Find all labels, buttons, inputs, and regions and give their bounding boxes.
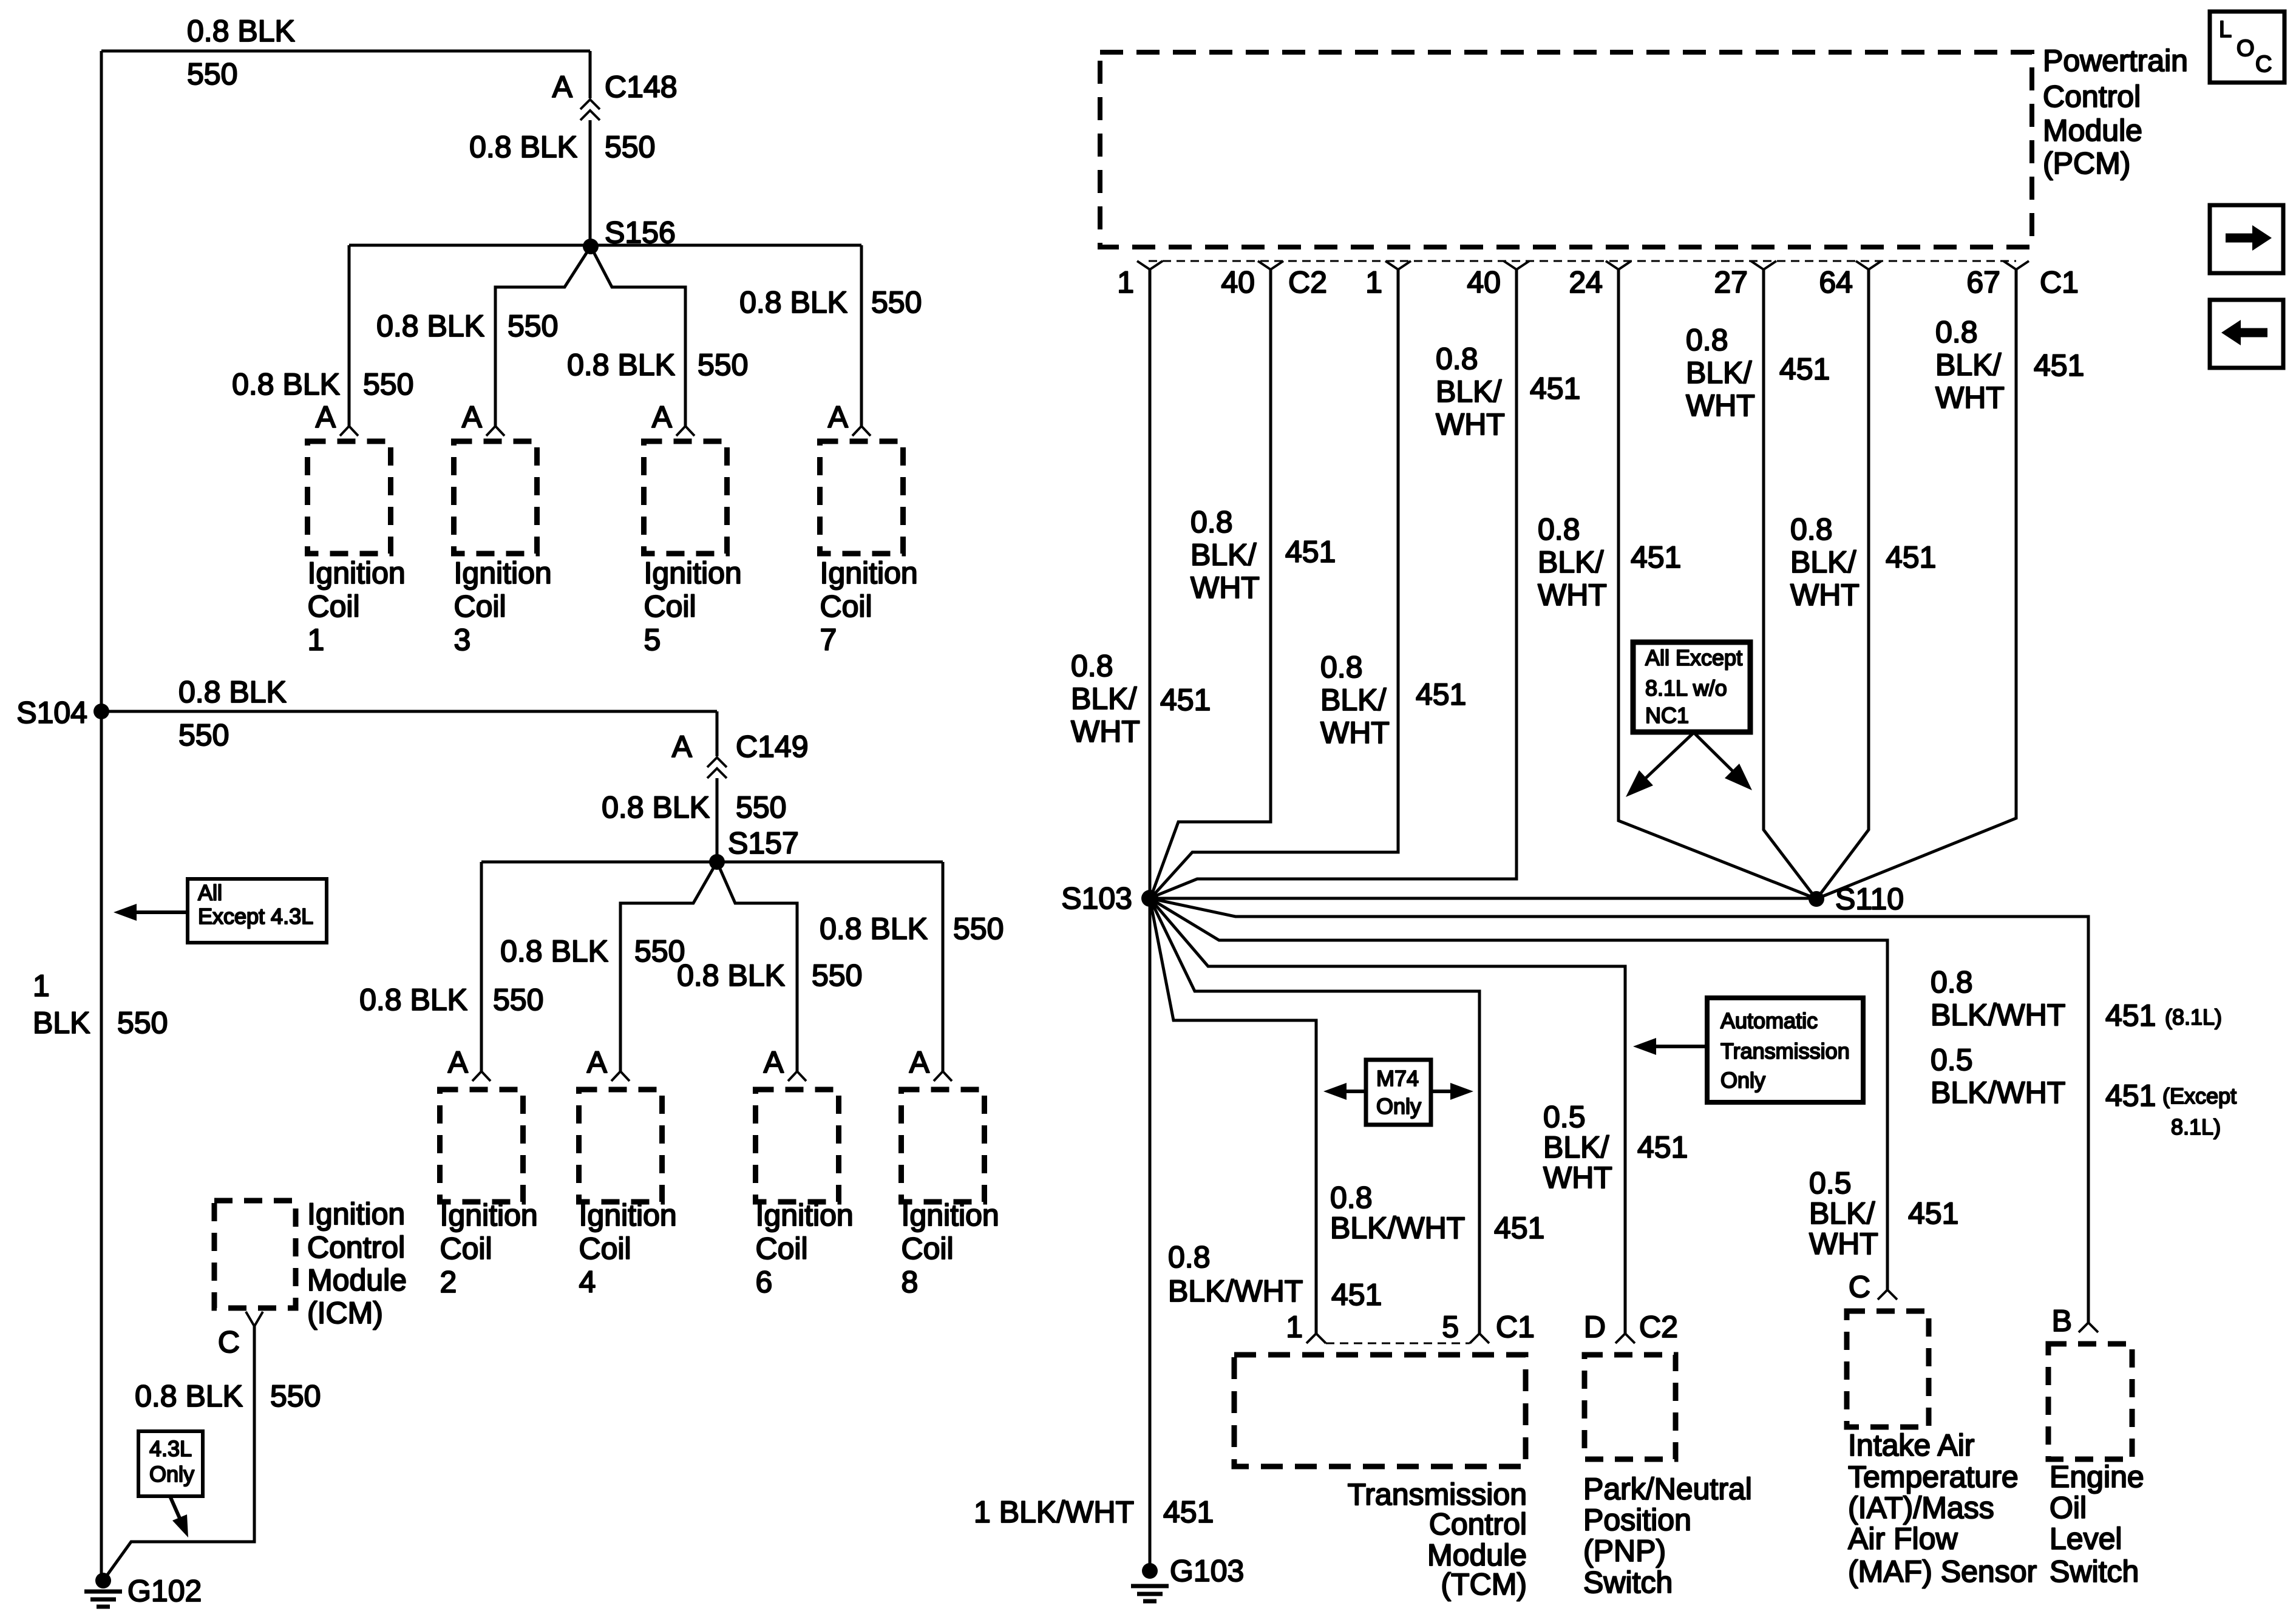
svg-text:0.8: 0.8 bbox=[1071, 649, 1113, 683]
svg-text:67: 67 bbox=[1966, 265, 2000, 299]
svg-text:S110: S110 bbox=[1835, 882, 1904, 916]
svg-text:451: 451 bbox=[1631, 540, 1681, 574]
svg-text:Ignition: Ignition bbox=[579, 1198, 677, 1232]
PCM pin 40 connector chevron at x=2093 bbox=[1221, 261, 1283, 299]
svg-text:Position: Position bbox=[1583, 1503, 1691, 1537]
wire label 0.8 BLK/WHT 451 (TCM pin 5) bbox=[1330, 1181, 1544, 1245]
svg-text:550: 550 bbox=[187, 57, 237, 91]
svg-text:Ignition: Ignition bbox=[902, 1198, 999, 1232]
PCM pin 1 connector chevron at x=2303 bbox=[1365, 261, 1411, 299]
ICM connector chevron pin C bbox=[218, 1312, 263, 1359]
ground G102 bbox=[84, 1573, 202, 1608]
svg-text:0.8 BLK: 0.8 BLK bbox=[187, 14, 295, 48]
wire label 0.8 BLK (coil 3) bbox=[376, 309, 484, 343]
wire - S157 horizontal bus bbox=[481, 861, 943, 864]
svg-text:550: 550 bbox=[493, 983, 543, 1017]
wire label 0.8 BLK/WHT 451 (pin 1 C1) bbox=[1320, 650, 1466, 750]
svg-text:Powertrain: Powertrain bbox=[2043, 44, 2188, 78]
wire - S103 to PNP switch bbox=[1150, 898, 1625, 1334]
wire label 1 BLK/WHT 451 (G103 run) bbox=[974, 1495, 1214, 1529]
splice S157 bbox=[709, 826, 799, 870]
ignition coil 4 box bbox=[579, 1090, 662, 1202]
wire - PCM pin 1 C1 to S103 bbox=[1152, 269, 1398, 897]
wire - S103 to S110 link bbox=[1150, 897, 1816, 900]
svg-text:0.8: 0.8 bbox=[1935, 315, 1978, 349]
wire - PCM pin 24 to S110 bbox=[1618, 269, 1815, 898]
IAT/MAF label bbox=[1848, 1428, 2037, 1588]
svg-text:550: 550 bbox=[871, 285, 922, 319]
svg-text:0.8 BLK: 0.8 BLK bbox=[500, 934, 608, 968]
ignition coil 5 box bbox=[644, 441, 727, 554]
wire - S156 branch to coil 5 bbox=[591, 246, 685, 426]
svg-text:S103: S103 bbox=[1061, 881, 1132, 915]
PCM label bbox=[2043, 44, 2188, 180]
wire - PCM pin 64 to S110 bbox=[1817, 269, 1869, 898]
wire label 550 (coil 4) bbox=[634, 934, 685, 968]
splice S103 bbox=[1061, 881, 1158, 915]
wire - PCM pin 27 to S110 bbox=[1764, 269, 1816, 898]
svg-text:O: O bbox=[2237, 36, 2255, 61]
svg-text:C149: C149 bbox=[736, 730, 809, 764]
wire - PCM pin 40 C2 to S103 bbox=[1151, 269, 1271, 897]
wire - S103 to TCM pin 5 bbox=[1150, 898, 1479, 1334]
svg-text:0.8: 0.8 bbox=[1931, 965, 1973, 999]
wire - S104 to C149 bbox=[101, 711, 717, 756]
connector C149 symbol bbox=[707, 730, 809, 778]
svg-text:BLK/: BLK/ bbox=[1190, 538, 1257, 572]
svg-text:(ICM): (ICM) bbox=[307, 1296, 383, 1330]
ignition coil 4 label bbox=[579, 1198, 677, 1299]
svg-text:550: 550 bbox=[605, 130, 655, 164]
ignition coil 1 label bbox=[308, 556, 406, 657]
wire - S103 to engine oil level switch bbox=[1150, 898, 2088, 1323]
svg-text:0.8: 0.8 bbox=[1330, 1181, 1373, 1215]
svg-text:S104: S104 bbox=[16, 696, 87, 730]
svg-text:550: 550 bbox=[270, 1379, 321, 1413]
svg-text:550: 550 bbox=[953, 912, 1004, 946]
wire - S156 branch to coil 3 bbox=[495, 246, 591, 426]
callout box Automatic Transmission Only bbox=[1707, 998, 1863, 1102]
svg-text:Only: Only bbox=[1720, 1068, 1765, 1093]
wire label 0.8 BLK/WHT 451 (pin 67) bbox=[1935, 315, 2084, 415]
svg-text:0.8 BLK: 0.8 BLK bbox=[359, 983, 467, 1017]
svg-text:S157: S157 bbox=[728, 826, 799, 860]
wire label 0.8 BLK (coil 4) bbox=[500, 934, 608, 968]
arrow - NC1 callout to pin 24 wire bbox=[1626, 733, 1694, 797]
svg-text:A: A bbox=[316, 400, 336, 434]
splice S104 bbox=[16, 696, 109, 730]
wire label 0.8 BLK/WHT 451 (pin 24) bbox=[1538, 512, 1681, 612]
svg-text:1: 1 bbox=[1365, 265, 1382, 299]
IAT pin C label bbox=[1849, 1270, 1870, 1304]
ignition coil 3 box bbox=[454, 441, 537, 554]
wire - S156 to ignition coil 7 bbox=[860, 245, 863, 426]
svg-text:BLK/WHT: BLK/WHT bbox=[1931, 1076, 2065, 1110]
svg-text:451: 451 bbox=[2034, 348, 2084, 382]
svg-text:0.8: 0.8 bbox=[1436, 342, 1478, 376]
engine oil pin B chevron bbox=[2079, 1323, 2098, 1332]
PCM pin 67 connector chevron at x=3321 bbox=[1966, 261, 2029, 299]
svg-text:BLK/WHT: BLK/WHT bbox=[1168, 1274, 1303, 1308]
svg-text:WHT: WHT bbox=[1935, 381, 2005, 415]
pin A of ignition coil 8 bbox=[909, 1045, 930, 1079]
svg-text:C: C bbox=[1849, 1270, 1870, 1304]
wire label 0.8 BLK (coil 2) bbox=[359, 983, 467, 1017]
ignition coil 1 box bbox=[308, 441, 391, 554]
PNP label bbox=[1583, 1472, 1752, 1599]
svg-text:8: 8 bbox=[902, 1265, 919, 1299]
svg-text:BLK/: BLK/ bbox=[1436, 375, 1502, 408]
svg-text:550: 550 bbox=[117, 1006, 168, 1040]
connector chevron coil 3 bbox=[486, 426, 504, 436]
ignition coil 3 label bbox=[454, 556, 552, 657]
svg-text:0.8: 0.8 bbox=[1320, 650, 1363, 684]
svg-text:Air Flow: Air Flow bbox=[1848, 1522, 1958, 1556]
engine oil level switch label bbox=[2050, 1460, 2144, 1588]
svg-text:Control: Control bbox=[1429, 1507, 1527, 1541]
svg-text:C2: C2 bbox=[1288, 265, 1327, 299]
wire label 0.8 BLK (coil 8) bbox=[820, 912, 928, 946]
pin A of ignition coil 4 bbox=[587, 1045, 608, 1079]
svg-text:451: 451 bbox=[1331, 1278, 1382, 1312]
svg-text:7: 7 bbox=[820, 623, 837, 657]
wire - S157 to ignition coil 8 bbox=[942, 862, 945, 1071]
svg-text:5: 5 bbox=[1442, 1310, 1459, 1344]
svg-text:40: 40 bbox=[1221, 265, 1255, 299]
PCM pin 40 connector chevron at x=2498 bbox=[1467, 261, 1529, 299]
PCM pin 1 connector chevron at x=1894 bbox=[1117, 261, 1163, 299]
wire label 550 (coil 7) bbox=[871, 285, 922, 319]
wire label 0.8 BLK 550 (C148-S156) bbox=[469, 130, 655, 164]
svg-text:1: 1 bbox=[1117, 265, 1134, 299]
wire label 550 (coil 5) bbox=[698, 348, 748, 382]
svg-text:L: L bbox=[2219, 17, 2232, 42]
svg-text:Coil: Coil bbox=[644, 589, 696, 623]
engine oil level switch box bbox=[2048, 1344, 2132, 1459]
arrow - Automatic Transmission Only to PNP wire bbox=[1633, 1038, 1707, 1055]
wire - PCM pin 67 to S110 bbox=[1818, 269, 2016, 898]
park/neutral position switch box bbox=[1584, 1355, 1676, 1459]
svg-text:(TCM): (TCM) bbox=[1441, 1567, 1527, 1601]
svg-text:Coil: Coil bbox=[579, 1232, 631, 1266]
wire label 550 (coil 3) bbox=[508, 309, 558, 343]
svg-text:6: 6 bbox=[756, 1265, 773, 1299]
svg-text:C148: C148 bbox=[605, 70, 678, 104]
svg-text:(8.1L): (8.1L) bbox=[2165, 1005, 2222, 1029]
svg-text:Ignition: Ignition bbox=[307, 1197, 405, 1231]
wire label 0.8 BLK/WHT 451 8.1L (right) bbox=[1931, 965, 2222, 1032]
callout box 4.3L Only bbox=[138, 1431, 203, 1496]
svg-text:M74: M74 bbox=[1376, 1066, 1419, 1091]
svg-text:0.5: 0.5 bbox=[1931, 1043, 1973, 1077]
PNP pin D chevron bbox=[1615, 1334, 1635, 1343]
TCM pin 5 label bbox=[1442, 1310, 1459, 1344]
connector chevron coil 5 bbox=[676, 426, 695, 436]
svg-text:451: 451 bbox=[1779, 352, 1830, 386]
wire - S103 to IAT/MAF sensor bbox=[1150, 898, 1887, 1290]
svg-text:550: 550 bbox=[812, 958, 862, 992]
svg-text:0.8 BLK: 0.8 BLK bbox=[376, 309, 484, 343]
svg-text:Oil: Oil bbox=[2050, 1491, 2087, 1525]
svg-text:451: 451 bbox=[1163, 1495, 1214, 1529]
svg-text:5: 5 bbox=[644, 623, 661, 657]
connector C148 symbol bbox=[580, 51, 678, 120]
svg-text:3: 3 bbox=[454, 623, 471, 657]
arrow - All Except 4.3L to main wire bbox=[114, 904, 188, 921]
wire label 550 (coil 1) bbox=[363, 367, 413, 401]
svg-text:Ignition: Ignition bbox=[644, 556, 742, 590]
svg-text:451: 451 bbox=[1908, 1196, 1958, 1230]
svg-text:0.8: 0.8 bbox=[1686, 323, 1728, 357]
connector C148 pin A bbox=[552, 70, 573, 104]
legend LOC box bbox=[2210, 12, 2284, 83]
svg-text:A: A bbox=[462, 400, 483, 434]
wire label 0.5 BLK/WHT 451 (IAT) bbox=[1809, 1166, 1958, 1261]
svg-text:Except 4.3L: Except 4.3L bbox=[198, 904, 313, 929]
svg-text:4: 4 bbox=[579, 1265, 596, 1299]
svg-text:0.8 BLK: 0.8 BLK bbox=[567, 348, 675, 382]
ground G103 bbox=[1131, 1554, 1244, 1601]
wire label 550 (coil 8) bbox=[953, 912, 1004, 946]
svg-text:0.8 BLK: 0.8 BLK bbox=[602, 790, 710, 824]
engine oil pin B label bbox=[2052, 1304, 2072, 1338]
wire - main ground run from top-left to G102 bbox=[100, 51, 103, 1581]
svg-text:0.8 BLK: 0.8 BLK bbox=[677, 958, 785, 992]
svg-text:64: 64 bbox=[1819, 265, 1853, 299]
svg-text:A: A bbox=[909, 1045, 930, 1079]
pin A of ignition coil 3 bbox=[462, 400, 483, 434]
svg-text:24: 24 bbox=[1569, 265, 1603, 299]
TCM connector face dashed line bbox=[1326, 1343, 1470, 1344]
svg-text:WHT: WHT bbox=[1543, 1161, 1612, 1195]
svg-text:BLK/: BLK/ bbox=[1935, 348, 2002, 382]
TCM pin 1 chevron bbox=[1306, 1334, 1326, 1343]
connector chevron coil 4 bbox=[611, 1071, 630, 1081]
PCM pin 24 connector chevron at x=2666 bbox=[1569, 261, 1631, 299]
svg-text:Switch: Switch bbox=[1583, 1565, 1673, 1599]
svg-text:A: A bbox=[828, 400, 849, 434]
wire label 550 (coil 2) bbox=[493, 983, 543, 1017]
svg-text:G102: G102 bbox=[127, 1574, 202, 1608]
ignition control module ICM box bbox=[214, 1201, 296, 1308]
wire - S156 to ignition coil 1 bbox=[348, 245, 351, 426]
svg-text:WHT: WHT bbox=[1320, 716, 1390, 750]
wire label 0.8 BLK (coil 1) bbox=[232, 367, 340, 401]
svg-text:Level: Level bbox=[2050, 1522, 2122, 1556]
svg-text:BLK/: BLK/ bbox=[1790, 545, 1856, 579]
connector chevron coil 8 bbox=[934, 1071, 952, 1081]
svg-text:WHT: WHT bbox=[1790, 578, 1860, 612]
pin A of ignition coil 7 bbox=[828, 400, 849, 434]
svg-text:Control: Control bbox=[307, 1230, 405, 1264]
svg-text:WHT: WHT bbox=[1686, 388, 1755, 422]
wire - PCM pin 1 C2 down to S103 and G103 bbox=[1149, 269, 1152, 1571]
svg-text:A: A bbox=[552, 70, 573, 104]
svg-text:4.3L: 4.3L bbox=[149, 1436, 192, 1461]
svg-text:WHT: WHT bbox=[1071, 714, 1140, 748]
svg-text:451: 451 bbox=[1530, 371, 1580, 405]
svg-text:C: C bbox=[2255, 52, 2272, 77]
wire label 0.8 BLK 550 (top left) bbox=[187, 14, 295, 91]
wire label 0.8 BLK/WHT 451 (pin 40 C2) bbox=[1190, 505, 1336, 605]
svg-text:Temperature: Temperature bbox=[1848, 1460, 2019, 1494]
svg-text:1: 1 bbox=[308, 623, 325, 657]
wire label 1 BLK 550 (main run) bbox=[33, 969, 168, 1040]
TCM pin 5 chevron bbox=[1470, 1334, 1489, 1343]
wire label 0.8 BLK 550 (ICM) bbox=[135, 1379, 321, 1413]
transmission control module TCM box bbox=[1234, 1355, 1526, 1466]
wire label 0.8 BLK/WHT 451 (pin 40 C1) bbox=[1436, 342, 1580, 441]
wire label 0.8 BLK (coil 6) bbox=[677, 958, 785, 992]
svg-text:Coil: Coil bbox=[820, 589, 872, 623]
svg-text:451: 451 bbox=[1494, 1211, 1544, 1245]
svg-text:0.5: 0.5 bbox=[1543, 1100, 1586, 1134]
ICM label bbox=[307, 1197, 407, 1330]
splice S156 bbox=[583, 215, 676, 254]
svg-text:1 BLK/WHT: 1 BLK/WHT bbox=[974, 1495, 1134, 1529]
svg-text:Coil: Coil bbox=[902, 1232, 954, 1266]
svg-text:Automatic: Automatic bbox=[1720, 1008, 1818, 1033]
wire - S156 horizontal bus bbox=[349, 244, 861, 247]
svg-text:WHT: WHT bbox=[1538, 578, 1607, 612]
connector chevron coil 6 bbox=[788, 1071, 806, 1081]
ignition coil 8 box bbox=[902, 1090, 985, 1202]
wire - C148 to S156 bbox=[589, 120, 592, 246]
svg-text:0.5: 0.5 bbox=[1809, 1166, 1852, 1200]
svg-text:All: All bbox=[198, 880, 222, 905]
PCM connector C1 label bbox=[2040, 265, 2079, 299]
svg-text:0.8: 0.8 bbox=[1790, 512, 1833, 546]
svg-text:Coil: Coil bbox=[454, 589, 506, 623]
powertrain control module PCM box bbox=[1100, 52, 2032, 247]
arrow - M74 to TCM pin 1 wire bbox=[1323, 1083, 1366, 1100]
svg-text:0.8 BLK: 0.8 BLK bbox=[178, 675, 287, 709]
svg-text:(Except: (Except bbox=[2162, 1083, 2237, 1108]
svg-text:451: 451 bbox=[1637, 1130, 1688, 1164]
wire label 0.5 BLK/WHT 451 (PNP) bbox=[1543, 1100, 1688, 1195]
ignition coil 6 label bbox=[756, 1198, 854, 1299]
svg-text:A: A bbox=[764, 1045, 784, 1079]
arrow - M74 to TCM pin 5 wire bbox=[1431, 1083, 1473, 1100]
svg-text:550: 550 bbox=[508, 309, 558, 343]
svg-text:0.8 BLK: 0.8 BLK bbox=[232, 367, 340, 401]
svg-text:451: 451 bbox=[1416, 677, 1466, 711]
PNP pin D label bbox=[1584, 1310, 1606, 1344]
ignition coil 8 label bbox=[902, 1198, 999, 1299]
arrow - NC1 callout to pin 27 wire bbox=[1694, 733, 1752, 790]
svg-text:Only: Only bbox=[149, 1462, 194, 1486]
svg-text:451: 451 bbox=[1886, 540, 1936, 574]
svg-text:Only: Only bbox=[1376, 1094, 1421, 1119]
callout box M74 Only bbox=[1366, 1060, 1431, 1125]
svg-text:C1: C1 bbox=[1496, 1310, 1535, 1344]
svg-text:G103: G103 bbox=[1170, 1554, 1244, 1588]
pin A of ignition coil 6 bbox=[764, 1045, 784, 1079]
svg-text:A: A bbox=[587, 1045, 608, 1079]
PCM connector face dashed line bbox=[1149, 260, 2016, 262]
wire label 0.8 BLK (coil 7) bbox=[739, 285, 847, 319]
svg-text:(PNP): (PNP) bbox=[1583, 1534, 1666, 1568]
svg-text:Ignition: Ignition bbox=[440, 1198, 538, 1232]
IAT/MAF sensor box bbox=[1847, 1311, 1929, 1427]
callout box All Except 8.1L w/o NC1 bbox=[1633, 642, 1750, 732]
ignition coil 7 label bbox=[820, 556, 918, 657]
svg-text:451: 451 bbox=[1160, 683, 1211, 717]
wire - S157 to ignition coil 2 bbox=[480, 862, 483, 1071]
svg-text:Ignition: Ignition bbox=[820, 556, 918, 590]
svg-text:2: 2 bbox=[440, 1265, 457, 1299]
IAT pin C chevron bbox=[1878, 1290, 1897, 1300]
svg-text:WHT: WHT bbox=[1809, 1227, 1878, 1261]
ignition coil 7 box bbox=[820, 441, 903, 554]
svg-text:550: 550 bbox=[363, 367, 413, 401]
svg-text:NC1: NC1 bbox=[1645, 703, 1689, 728]
PCM pin 27 connector chevron at x=2905 bbox=[1714, 261, 1776, 299]
legend arrow-left box bbox=[2210, 300, 2283, 368]
svg-text:C2: C2 bbox=[1639, 1310, 1678, 1344]
svg-text:0.8: 0.8 bbox=[1190, 505, 1233, 539]
svg-text:27: 27 bbox=[1714, 265, 1748, 299]
wire - C149 to S157 bbox=[716, 778, 719, 862]
svg-text:A: A bbox=[448, 1045, 469, 1079]
svg-text:451: 451 bbox=[2105, 1079, 2156, 1113]
svg-text:Ignition: Ignition bbox=[756, 1198, 854, 1232]
connector chevron coil 2 bbox=[472, 1071, 491, 1081]
svg-text:0.8 BLK: 0.8 BLK bbox=[469, 130, 577, 164]
PCM pin 64 connector chevron at x=3078 bbox=[1819, 261, 1881, 299]
svg-text:550: 550 bbox=[178, 718, 229, 752]
svg-text:0.8: 0.8 bbox=[1538, 512, 1580, 546]
svg-text:Park/Neutral: Park/Neutral bbox=[1583, 1472, 1752, 1506]
wire - S157 branch to coil 6 bbox=[717, 862, 797, 1071]
svg-text:Control: Control bbox=[2043, 80, 2141, 114]
wire label 0.5 BLK/WHT 451 Except 8.1L (right) bbox=[1931, 1043, 2237, 1139]
pin A of ignition coil 5 bbox=[652, 400, 673, 434]
svg-text:B: B bbox=[2052, 1304, 2072, 1338]
svg-text:BLK/: BLK/ bbox=[1686, 356, 1752, 390]
svg-text:C: C bbox=[218, 1325, 240, 1359]
ignition coil 2 label bbox=[440, 1198, 538, 1299]
wire label 0.8 BLK 550 (C149-S157) bbox=[602, 790, 786, 824]
svg-text:Module: Module bbox=[307, 1263, 407, 1297]
splice S110 bbox=[1809, 882, 1904, 916]
svg-text:550: 550 bbox=[698, 348, 748, 382]
wire label 0.8 BLK (coil 5) bbox=[567, 348, 675, 382]
svg-text:451: 451 bbox=[1285, 535, 1336, 569]
svg-text:0.8 BLK: 0.8 BLK bbox=[820, 912, 928, 946]
svg-text:A: A bbox=[652, 400, 673, 434]
wire label 0.8 BLK/WHT 451 (pin 1 C2) bbox=[1071, 649, 1211, 748]
svg-text:BLK/: BLK/ bbox=[1543, 1130, 1609, 1164]
svg-text:C1: C1 bbox=[2040, 265, 2079, 299]
svg-text:Coil: Coil bbox=[756, 1232, 808, 1266]
connector C149 pin A bbox=[672, 730, 693, 764]
svg-text:8.1L): 8.1L) bbox=[2171, 1114, 2221, 1139]
ignition coil 6 box bbox=[756, 1090, 839, 1202]
svg-text:Transmission: Transmission bbox=[1348, 1477, 1527, 1511]
svg-text:BLK/WHT: BLK/WHT bbox=[1330, 1211, 1465, 1245]
svg-text:Intake Air: Intake Air bbox=[1848, 1428, 1974, 1462]
svg-text:WHT: WHT bbox=[1436, 407, 1505, 441]
svg-text:WHT: WHT bbox=[1190, 571, 1260, 605]
PNP connector C2 label bbox=[1639, 1310, 1678, 1344]
ignition coil 2 box bbox=[440, 1090, 523, 1202]
svg-text:(PCM): (PCM) bbox=[2043, 146, 2130, 180]
callout box All Except 4.3L bbox=[188, 879, 327, 943]
svg-text:D: D bbox=[1584, 1310, 1606, 1344]
ignition coil 5 label bbox=[644, 556, 742, 657]
svg-text:All Except: All Except bbox=[1645, 645, 1742, 670]
